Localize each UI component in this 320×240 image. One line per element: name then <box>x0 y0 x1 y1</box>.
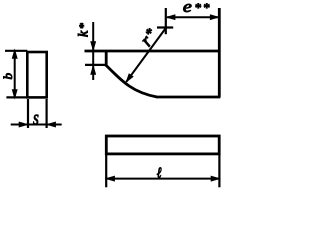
svg-text:*: * <box>76 23 90 29</box>
svg-text:ℓ: ℓ <box>157 164 162 181</box>
svg-text:k: k <box>77 30 92 37</box>
svg-text:s: s <box>33 106 39 129</box>
svg-text:e: e <box>183 0 192 16</box>
svg-text:*: * <box>203 0 210 15</box>
svg-text:b: b <box>0 73 15 80</box>
svg-text:*: * <box>194 0 201 15</box>
